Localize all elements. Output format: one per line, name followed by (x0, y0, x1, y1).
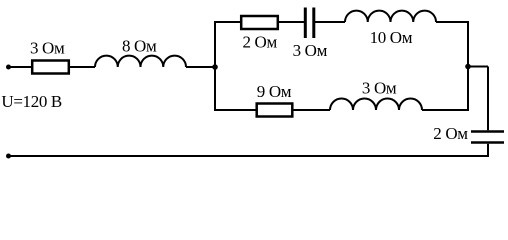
node junction left (212, 64, 218, 70)
resistor R1 3 Ом (32, 61, 69, 74)
resistor R2 2 Ом (241, 16, 278, 29)
inductor L2 10 Ом (345, 11, 436, 22)
capacitor C2 2 Ом (471, 132, 504, 143)
svg-text:U=120 В: U=120 В (1, 92, 62, 111)
wire (422, 109, 469, 111)
svg-text:2 Ом: 2 Ом (433, 124, 468, 143)
wire (315, 21, 345, 23)
terminal dot bottom-left (6, 154, 11, 159)
node junction right (465, 64, 471, 70)
wire left vertical (214, 21, 216, 110)
inductor L1 8 Ом (95, 56, 186, 67)
wire (186, 66, 216, 68)
svg-text:10 Ом: 10 Ом (370, 28, 413, 47)
wire (293, 109, 330, 111)
inductor L3 3 Ом (330, 99, 422, 110)
wire right vertical (467, 21, 469, 111)
wire top branch lead (214, 21, 240, 23)
wire bottom branch lead (214, 109, 256, 111)
terminal dot top-left (6, 65, 11, 70)
resistor R3 9 Ом (257, 104, 293, 117)
capacitor C1 3 Ом (305, 8, 314, 39)
svg-text:9 Ом: 9 Ом (257, 82, 292, 101)
wire output tap (468, 67, 488, 131)
wire (69, 66, 95, 68)
svg-text:3 Ом: 3 Ом (293, 41, 328, 60)
wire (278, 21, 304, 23)
wire (436, 21, 469, 23)
wire (487, 144, 489, 157)
svg-text:2 Ом: 2 Ом (243, 33, 278, 52)
wire (9, 66, 33, 68)
svg-text:3 Ом: 3 Ом (362, 79, 397, 98)
svg-text:3 Ом: 3 Ом (30, 39, 65, 58)
svg-text:8 Ом: 8 Ом (122, 37, 157, 56)
wire bottom rail (9, 155, 490, 157)
